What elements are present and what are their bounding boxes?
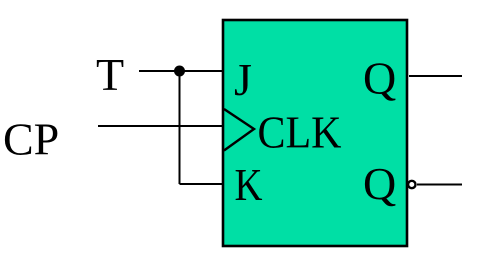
svg-text:T: T (96, 49, 124, 100)
svg-text:K: K (235, 159, 263, 210)
svg-text:CLK: CLK (258, 107, 342, 158)
svg-text:Q: Q (363, 53, 396, 104)
svg-text:CP: CP (3, 114, 59, 165)
svg-text:Q: Q (363, 158, 396, 209)
svg-text:J: J (234, 54, 252, 105)
